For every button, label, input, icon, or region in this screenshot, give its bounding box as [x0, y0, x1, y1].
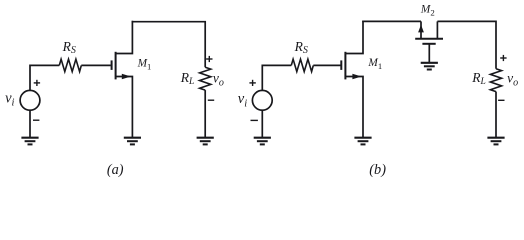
transistor M2 channel [415, 38, 443, 40]
svg-text:vi: vi [5, 90, 14, 108]
resistor RL (a) [200, 67, 211, 90]
transistor M1 (a) channel [115, 52, 117, 80]
transistor M1 (b) source arrow [352, 74, 361, 80]
wire RL bottom to ground (a) [204, 90, 206, 138]
plus of vi (a) [34, 80, 40, 86]
plus of vo (b) [500, 55, 506, 61]
transistor M2 source arrow [418, 25, 424, 33]
wire vi top to RS corner (a) [30, 65, 59, 90]
svg-text:RS: RS [294, 39, 308, 56]
voltage source vi (a) [20, 90, 40, 110]
ground under RL (a) [197, 138, 214, 145]
rail M1 drain to M2 source (b) [362, 20, 421, 22]
svg-text:M1: M1 [367, 57, 382, 71]
transistor M1 (b) source lead and wire down to ground [345, 77, 363, 138]
svg-text:(b): (b) [369, 162, 386, 178]
wire vi bottom to ground (b) [261, 110, 263, 138]
svg-text:RS: RS [62, 39, 76, 56]
wire RS to gate of M1 (a) [81, 64, 111, 66]
resistor RS (b) [291, 59, 313, 71]
svg-text:RL: RL [180, 70, 195, 87]
resistor RL (b) [490, 69, 501, 92]
svg-text:RL: RL [471, 70, 486, 87]
ground under RL (b) [487, 138, 504, 145]
rail M2 drain to RL (b) [437, 21, 496, 68]
transistor M1 (b) gate bar [340, 60, 342, 70]
ground under M1 source (b) [354, 138, 371, 145]
transistor M1 (a) drain lead and wire up to rail [116, 21, 133, 54]
voltage source vi (b) [252, 90, 272, 110]
transistor M1 (a) source lead and wire down to ground [116, 77, 133, 138]
plus of vi (b) [249, 80, 255, 86]
transistor M2 gate bar [422, 43, 435, 45]
transistor M2 drain lead up to rail [436, 21, 438, 38]
svg-text:(a): (a) [107, 162, 124, 178]
wire vi bottom to ground (a) [29, 110, 31, 138]
top rail drain to RL (a) [132, 22, 206, 67]
minus of vo (b) [498, 99, 504, 101]
transistor M1 (a) gate bar [111, 60, 113, 70]
ground under M1 source (a) [124, 138, 141, 145]
svg-text:M2: M2 [420, 4, 435, 18]
ground at M2 gate [421, 63, 438, 70]
minus of vi (b) [251, 119, 258, 121]
svg-text:vo: vo [507, 71, 518, 89]
transistor M1 (b) channel [344, 52, 346, 80]
transistor M2 source lead down from rail [420, 21, 422, 38]
ground under vi (a) [21, 138, 38, 145]
svg-text:vo: vo [213, 71, 224, 89]
wire RS to gate of M1 (b) [313, 64, 340, 66]
svg-text:M1: M1 [137, 58, 152, 72]
plus of vo (a) [206, 56, 212, 62]
svg-text:vi: vi [238, 91, 247, 109]
minus of vo (a) [208, 99, 214, 101]
wire RL bottom to ground (b) [495, 92, 497, 138]
ground under vi (b) [254, 138, 271, 145]
resistor RS (a) [59, 59, 81, 71]
transistor M1 (a) source arrow [122, 74, 131, 80]
minus of vi (a) [33, 119, 39, 121]
wire vi top to RS corner (b) [262, 65, 291, 90]
wire M2 gate to ground [428, 44, 430, 63]
transistor M1 (b) drain lead and wire up to rail [345, 21, 363, 54]
